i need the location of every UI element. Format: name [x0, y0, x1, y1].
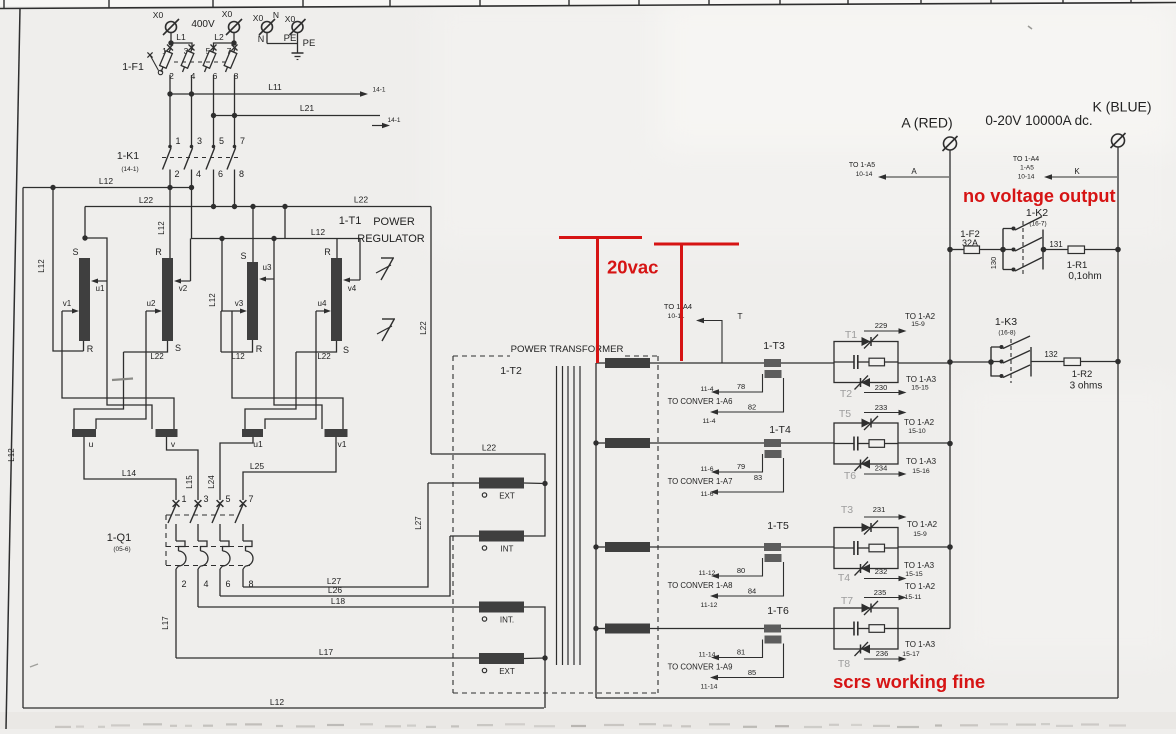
wire web u4 to brush u1 — [265, 311, 316, 429]
ground PE — [292, 52, 304, 54]
svg-text:80: 80 — [737, 566, 745, 575]
svg-text:85: 85 — [748, 668, 756, 677]
resistor snubber 2 — [869, 440, 885, 448]
svg-text:4: 4 — [203, 579, 208, 589]
wire EXT1 left — [428, 482, 479, 484]
SCR block T7/T8 — [834, 608, 898, 649]
wire bus K — [1117, 147, 1119, 698]
svg-text:15-9: 15-9 — [911, 321, 925, 328]
wire bar2 S stub — [124, 341, 168, 352]
wire fuse4 down — [191, 75, 193, 146]
transformer core lines — [557, 366, 581, 665]
red probe 2 — [654, 243, 739, 246]
contact K2 row y=249.5 — [1003, 249, 1013, 251]
arrow gate 232 — [864, 578, 899, 580]
wire secondary line 4 — [650, 628, 834, 630]
capacitor snubber 2 — [853, 437, 855, 451]
wire fuse8 down — [234, 75, 236, 146]
svg-text:T1: T1 — [845, 329, 857, 341]
SCR block T3/T4 — [834, 528, 898, 569]
wire pole2 down to bar2 — [169, 188, 171, 259]
svg-text:11-6: 11-6 — [700, 466, 713, 473]
node terminal1 junction — [168, 40, 173, 45]
arrow gate 230 — [864, 392, 899, 394]
wire L22 into EXT1 — [431, 454, 545, 484]
capacitor snubber 3 — [853, 541, 855, 555]
breaker Q1 pole 3 — [195, 500, 202, 507]
fuse F1 pole 5 — [211, 45, 217, 51]
svg-text:L12: L12 — [208, 293, 217, 307]
wire branch arrow 85 — [718, 644, 784, 678]
svg-text:L22: L22 — [150, 352, 164, 361]
svg-text:scrs working fine: scrs working fine — [833, 671, 985, 692]
contact K3 row y=376 — [991, 375, 1001, 377]
svg-text:u2: u2 — [147, 299, 156, 308]
wire web u3 to brush v1 — [274, 279, 322, 429]
wire web bar4S to brush u1 — [245, 352, 296, 429]
thyristor T3 — [862, 523, 871, 532]
svg-text:u1: u1 — [96, 284, 105, 293]
svg-text:11-4: 11-4 — [700, 386, 713, 393]
thyristor T2 — [861, 378, 870, 387]
svg-text:11-14: 11-14 — [701, 684, 718, 691]
primary coil INT. y=601.5 — [479, 602, 524, 613]
svg-text:0,1ohm: 0,1ohm — [1068, 271, 1101, 282]
svg-text:L21: L21 — [300, 103, 314, 113]
svg-text:S: S — [175, 343, 181, 353]
contact K2 row y=228.5 — [1003, 228, 1013, 230]
wire L12 mid distribution — [192, 188, 361, 239]
primary coil EXT y=653 — [479, 653, 524, 664]
svg-text:u: u — [89, 439, 94, 449]
svg-text:10-14: 10-14 — [856, 171, 873, 178]
svg-text:L22: L22 — [419, 321, 428, 335]
svg-text:T8: T8 — [838, 658, 850, 670]
thyristor T4 — [861, 564, 870, 573]
svg-text:INT.: INT. — [500, 616, 514, 625]
thyristor T1 — [862, 337, 871, 346]
svg-text:X0: X0 — [153, 10, 164, 20]
resistor 1-R1 — [1044, 249, 1069, 251]
wiper u1 — [96, 280, 107, 282]
svg-text:TO 1-A3: TO 1-A3 — [906, 375, 937, 384]
arrow gate 233 — [864, 412, 899, 414]
svg-text:233: 233 — [875, 403, 888, 412]
svg-text:v1: v1 — [63, 299, 72, 308]
wire L22 drop to bar3 top — [252, 207, 254, 263]
wire branch arrow 82 — [718, 378, 784, 412]
svg-text:T6: T6 — [844, 470, 856, 482]
wire secondary line 2 — [650, 442, 834, 444]
svg-text:v3: v3 — [235, 299, 244, 308]
svg-text:TO 1-A3: TO 1-A3 — [905, 640, 936, 649]
wire bar4 S stub — [296, 341, 337, 352]
wire L12 left drop — [22, 188, 24, 709]
wire fuse6 down — [213, 75, 215, 146]
node L12 a — [50, 185, 55, 190]
svg-text:1-A5: 1-A5 — [1020, 165, 1034, 172]
wire terminal1 stem — [170, 33, 172, 44]
svg-text:(14-1): (14-1) — [121, 166, 138, 173]
svg-text:7: 7 — [248, 494, 253, 504]
wire L12 horizontal — [23, 187, 192, 189]
fuse F1 pole 1 — [167, 45, 173, 51]
wire L18 — [198, 606, 479, 608]
svg-text:130: 130 — [989, 257, 998, 270]
node K3 feed — [988, 359, 994, 365]
node L11 junction b — [189, 91, 194, 96]
contact K3 row y=347 — [991, 346, 1001, 348]
svg-text:A: A — [911, 167, 917, 176]
node L12 b — [167, 185, 172, 190]
brush box u1 — [242, 429, 263, 437]
capacitor snubber 4 — [853, 622, 855, 636]
svg-text:230: 230 — [875, 383, 888, 392]
secondary coil 2 — [605, 438, 650, 448]
svg-text:15-11: 15-11 — [905, 594, 922, 601]
node secondary bus 2 — [593, 440, 598, 445]
contactor K1 pole 7 — [233, 145, 237, 149]
svg-text:L22: L22 — [317, 352, 331, 361]
svg-text:no voltage output: no voltage output — [963, 186, 1116, 206]
svg-text:K (BLUE): K (BLUE) — [1092, 99, 1151, 115]
svg-text:229: 229 — [875, 321, 888, 330]
svg-text:L1: L1 — [176, 32, 186, 42]
red probe 1 (20vac) — [559, 236, 642, 239]
svg-text:v4: v4 — [348, 284, 357, 293]
arrow TO 1-A5 A — [886, 176, 949, 178]
node bar1 top junction — [82, 235, 87, 240]
wire PE stem — [297, 33, 299, 54]
frame left border — [6, 9, 20, 730]
svg-text:0-20V 10000A dc.: 0-20V 10000A dc. — [985, 113, 1092, 128]
variac bar 3 of regulator 1-T1 — [247, 262, 258, 340]
wire L27 — [243, 483, 428, 587]
node K2 out — [1041, 247, 1047, 253]
svg-text:L15: L15 — [185, 475, 194, 489]
svg-text:15-15: 15-15 — [905, 571, 923, 578]
primary coil INT y=530.5 — [479, 531, 524, 542]
svg-text:131: 131 — [1049, 240, 1063, 249]
wire L22 to bar1 top — [84, 207, 86, 239]
wire N to PE — [267, 43, 298, 45]
wire L14 — [84, 437, 176, 500]
svg-text:132: 132 — [1044, 350, 1058, 359]
svg-text:T3: T3 — [841, 504, 853, 516]
variac bar 4 of regulator 1-T1 — [331, 258, 342, 341]
node L22 c — [250, 204, 255, 209]
svg-text:POWER TRANSFORMER: POWER TRANSFORMER — [511, 344, 624, 355]
wire L25 — [243, 437, 336, 500]
wire branch arrow 79 — [719, 454, 763, 472]
wire branch arrow 84 — [718, 562, 784, 596]
terminal K (BLUE) — [1112, 134, 1125, 147]
wire INT1 left — [450, 535, 479, 537]
bottom edge noise — [55, 723, 1126, 728]
svg-text:T5: T5 — [839, 408, 851, 420]
primary coil EXT y=477.5 — [479, 478, 524, 489]
svg-text:L12: L12 — [37, 259, 46, 273]
variable arrow symbol 2 — [377, 319, 395, 341]
wire fuse2 down — [169, 75, 171, 146]
terminal X0 at x=234 — [229, 22, 240, 33]
wire EXT2 right — [524, 657, 545, 660]
svg-text:TO 1-A2: TO 1-A2 — [907, 520, 938, 529]
svg-text:v2: v2 — [179, 284, 188, 293]
node bus A taps — [947, 247, 953, 253]
contact K2 row y=269.5 — [1003, 269, 1013, 271]
svg-text:S: S — [72, 247, 78, 257]
svg-text:1-R2: 1-R2 — [1072, 369, 1093, 380]
node secondary bus 3 — [593, 544, 598, 549]
svg-text:TO 1-A2: TO 1-A2 — [904, 418, 935, 427]
linkage K2 dashed — [1022, 221, 1024, 277]
wire N terminal stem — [266, 33, 268, 44]
wire bar1 R stub — [83, 341, 85, 351]
resistor snubber 1 — [869, 358, 885, 366]
svg-text:L12: L12 — [157, 221, 166, 235]
svg-text:T4: T4 — [838, 572, 850, 584]
svg-text:1: 1 — [175, 136, 180, 146]
svg-text:N: N — [258, 34, 265, 44]
svg-text:79: 79 — [737, 462, 745, 471]
svg-text:1-T3: 1-T3 — [763, 340, 785, 352]
breaker Q1 pole 5 — [217, 500, 224, 507]
svg-text:1-F1: 1-F1 — [122, 61, 144, 73]
wire secondary line 1 — [650, 362, 834, 364]
brush box u — [72, 429, 96, 437]
svg-text:81: 81 — [737, 648, 745, 657]
svg-text:REGULATOR: REGULATOR — [357, 233, 424, 245]
svg-text:R: R — [155, 247, 162, 257]
wire L12 to bar1 R — [53, 188, 84, 352]
secondary coil 3 — [605, 542, 650, 552]
svg-text:5: 5 — [225, 494, 230, 504]
wire L2 — [214, 43, 235, 50]
svg-text:1-K1: 1-K1 — [117, 150, 139, 162]
resistor snubber 3 — [869, 544, 885, 552]
svg-text:TO CONVER 1-A9: TO CONVER 1-A9 — [668, 663, 733, 672]
svg-text:1-T6: 1-T6 — [767, 605, 789, 617]
terminal X0 N — [262, 22, 273, 33]
SCR block T5/T6 — [834, 423, 898, 464]
svg-text:1-K3: 1-K3 — [995, 316, 1017, 328]
arrow gate 231 — [864, 516, 899, 518]
wiper v4 — [359, 239, 361, 281]
svg-text:T2: T2 — [840, 388, 852, 400]
wire L26 — [220, 536, 450, 596]
fuse F1 pole 7 — [232, 45, 238, 51]
svg-text:78: 78 — [737, 382, 745, 391]
svg-text:236: 236 — [876, 649, 889, 658]
arrow 14-1 below L21 — [372, 125, 382, 127]
svg-text:1-T4: 1-T4 — [769, 424, 791, 436]
arrow TO 1-A4 K — [1052, 176, 1117, 178]
svg-text:L14: L14 — [122, 468, 136, 478]
svg-text:EXT: EXT — [499, 667, 515, 676]
fuse F1 pole 3 — [189, 45, 195, 51]
wire branch arrow 78 — [719, 374, 763, 392]
wire v3 feed from L12 — [221, 239, 223, 312]
secondary coil 1 — [605, 358, 650, 368]
svg-text:8: 8 — [239, 169, 244, 179]
svg-text:L2: L2 — [214, 32, 224, 42]
wiper u3 — [273, 239, 275, 280]
svg-text:L25: L25 — [250, 461, 264, 471]
svg-text:3: 3 — [197, 136, 202, 146]
svg-text:L24: L24 — [207, 475, 216, 489]
resistor 1-R2 — [1064, 358, 1081, 366]
svg-text:6: 6 — [218, 169, 223, 179]
wire branch arrow 80 — [719, 558, 763, 576]
svg-text:L12: L12 — [99, 176, 113, 186]
svg-text:S: S — [240, 251, 246, 261]
terminal X0 PE — [292, 22, 303, 33]
svg-text:L17: L17 — [161, 616, 170, 630]
node L21 junction b — [232, 113, 237, 118]
svg-text:235: 235 — [874, 588, 887, 597]
svg-text:3 ohms: 3 ohms — [1070, 381, 1103, 392]
svg-text:82: 82 — [748, 403, 756, 412]
node coil junction bottom — [542, 655, 547, 660]
wire branch arrow 83 — [718, 458, 784, 492]
wire L22 right vertical — [430, 207, 432, 455]
svg-text:X0: X0 — [253, 13, 264, 23]
svg-text:232: 232 — [875, 567, 888, 576]
svg-text:11-6: 11-6 — [700, 491, 713, 498]
arrow gate 229 — [864, 330, 899, 332]
breaker Q1 dashed frame — [166, 514, 236, 516]
contactor K1 linkage dashed — [162, 157, 239, 159]
wire EXT1 right — [524, 482, 545, 485]
wire bar3 R stub — [221, 340, 253, 352]
contactor K1 pole 5 — [212, 145, 216, 149]
breaker Q1 pole 7 — [240, 500, 247, 507]
svg-text:INT: INT — [501, 545, 514, 554]
svg-text:u1: u1 — [253, 439, 263, 449]
svg-text:L22: L22 — [139, 195, 153, 205]
frame ruler tick marks — [4, 0, 1131, 8]
svg-text:N: N — [273, 10, 279, 20]
wire branch arrow 81 — [719, 640, 763, 658]
svg-text:1-T2: 1-T2 — [500, 365, 522, 377]
node bus K taps — [1115, 247, 1121, 253]
svg-text:15-16: 15-16 — [912, 468, 930, 475]
wire bus A — [949, 150, 951, 629]
svg-text:2: 2 — [174, 169, 179, 179]
svg-text:TO CONVER 1-A6: TO CONVER 1-A6 — [668, 397, 733, 406]
wire INT2 right — [524, 607, 545, 658]
svg-text:14-1: 14-1 — [372, 87, 385, 94]
svg-text:234: 234 — [875, 464, 888, 473]
svg-text:R: R — [87, 344, 94, 354]
svg-text:5: 5 — [219, 136, 224, 146]
svg-text:(16-8): (16-8) — [998, 330, 1015, 337]
node L11 junction a — [167, 91, 172, 96]
svg-text:15-17: 15-17 — [902, 651, 920, 658]
svg-text:1: 1 — [181, 494, 186, 504]
svg-text:TO 1-A5: TO 1-A5 — [849, 162, 875, 169]
node K2 feed — [1000, 247, 1006, 253]
wire L15 — [167, 437, 199, 500]
svg-text:X0: X0 — [285, 14, 296, 24]
svg-text:PE: PE — [303, 38, 316, 49]
svg-text:1-R1: 1-R1 — [1067, 260, 1088, 271]
capacitor snubber 1 — [853, 355, 855, 369]
svg-text:1-T1: 1-T1 — [339, 215, 362, 227]
svg-text:15-15: 15-15 — [911, 385, 929, 392]
node L12 mid b — [271, 236, 276, 241]
svg-text:TO CONVER 1-A7: TO CONVER 1-A7 — [668, 477, 733, 486]
svg-text:400V: 400V — [191, 19, 215, 30]
breaker Q1 pole 1 — [173, 500, 180, 507]
node L22 a — [211, 204, 216, 209]
wire L1 — [171, 43, 192, 50]
thyristor T7 — [862, 604, 871, 613]
contactor K1 pole 3 — [190, 145, 194, 149]
svg-text:2: 2 — [181, 579, 186, 589]
svg-text:L11: L11 — [268, 82, 282, 92]
speck — [1028, 26, 1032, 29]
wire bottom return to K — [596, 697, 1118, 699]
fuse linkage dashes — [174, 61, 229, 63]
svg-text:7: 7 — [240, 136, 245, 146]
svg-text:T7: T7 — [841, 595, 853, 607]
node L21 junction a — [211, 113, 216, 118]
svg-text:1-K2: 1-K2 — [1026, 207, 1048, 219]
wire terminal2 stem — [233, 33, 235, 44]
thyristor T8 — [861, 645, 870, 654]
svg-text:TO CONVER 1-A8: TO CONVER 1-A8 — [668, 581, 733, 590]
svg-text:11-14: 11-14 — [699, 652, 716, 659]
wire L12 to bar4 top — [336, 239, 338, 259]
svg-text:L27: L27 — [414, 516, 423, 530]
svg-text:R: R — [324, 247, 331, 257]
variable arrow symbol 1 — [376, 258, 394, 280]
wire INT1 right — [524, 484, 545, 537]
svg-text:R: R — [256, 344, 263, 354]
svg-text:11-12: 11-12 — [699, 570, 716, 577]
wire web u1 to brush v — [107, 281, 152, 429]
svg-text:TO 1-A4: TO 1-A4 — [1013, 156, 1039, 163]
node secondary bus 4 — [593, 626, 598, 631]
brush box v — [156, 429, 178, 437]
svg-text:14-1: 14-1 — [387, 117, 400, 124]
wire EXT2 down to L12 — [544, 658, 546, 708]
contactor K1 pole 1 — [168, 145, 172, 149]
svg-text:TO 1-A3: TO 1-A3 — [904, 561, 935, 570]
thyristor T6 — [861, 460, 870, 469]
svg-text:L12: L12 — [231, 352, 245, 361]
node L22 b — [232, 204, 237, 209]
node L22 d — [282, 204, 287, 209]
svg-text:L12: L12 — [311, 227, 325, 237]
svg-text:v1: v1 — [338, 439, 347, 449]
wiper v2 — [190, 239, 192, 282]
svg-text:POWER: POWER — [373, 216, 415, 228]
svg-text:K: K — [1074, 167, 1080, 176]
frame top ruler line — [0, 3, 1176, 9]
wire L17 — [176, 657, 479, 659]
svg-text:A (RED): A (RED) — [901, 115, 952, 131]
svg-text:TO 1-A2: TO 1-A2 — [905, 312, 936, 321]
node coil junction top — [542, 481, 547, 486]
contact K3 row y=361.5 — [991, 361, 1001, 363]
svg-text:20vac: 20vac — [607, 257, 658, 278]
wire L22 horizontal — [85, 206, 431, 208]
wire web u2 to brush u — [96, 311, 146, 429]
SCR block T1/T2 — [834, 342, 898, 383]
